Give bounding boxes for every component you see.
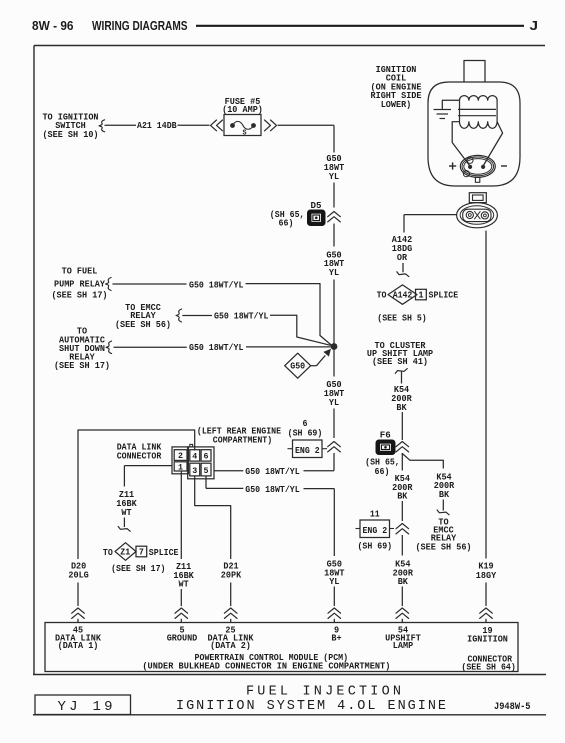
- svg-text:A142: A142: [393, 290, 413, 301]
- svg-text:(10 AMP): (10 AMP): [222, 104, 263, 115]
- svg-text:(SEE SH 56): (SEE SH 56): [115, 319, 171, 330]
- svg-text:2: 2: [178, 451, 183, 461]
- svg-text:TO: TO: [377, 290, 387, 301]
- svg-text:CONNECTOR: CONNECTOR: [117, 450, 162, 461]
- svg-text:8W - 96: 8W - 96: [32, 18, 74, 33]
- svg-text:6: 6: [204, 452, 209, 462]
- svg-text:(SEE SH 41): (SEE SH 41): [372, 356, 428, 367]
- svg-text:SPLICE: SPLICE: [149, 547, 179, 558]
- svg-text:J: J: [530, 18, 539, 33]
- svg-text:BK: BK: [396, 402, 406, 413]
- svg-text:BK: BK: [398, 576, 408, 587]
- svg-text:4: 4: [192, 452, 197, 462]
- svg-text:G50 18WT/YL: G50 18WT/YL: [214, 311, 269, 322]
- svg-text:1: 1: [178, 462, 183, 472]
- svg-text:ENG 2: ENG 2: [362, 525, 387, 536]
- svg-text:(SEE SH 5): (SEE SH 5): [377, 313, 427, 324]
- svg-text:(SEE SH 10): (SEE SH 10): [42, 129, 98, 140]
- svg-text:(SEE SH 17): (SEE SH 17): [54, 360, 110, 371]
- svg-text:20LG: 20LG: [68, 569, 89, 580]
- svg-text:GROUND: GROUND: [167, 632, 198, 643]
- svg-text:ENG 2: ENG 2: [295, 445, 320, 456]
- svg-text:5: 5: [204, 466, 209, 476]
- svg-text:(DATA 2): (DATA 2): [210, 640, 251, 651]
- svg-text:G50 18WT/YL: G50 18WT/YL: [245, 484, 300, 495]
- svg-text:66): 66): [279, 218, 294, 229]
- svg-text:(SEE SH 17): (SEE SH 17): [111, 563, 165, 574]
- svg-text:WT: WT: [179, 579, 189, 590]
- svg-text:11: 11: [370, 508, 380, 519]
- svg-text:TO: TO: [103, 547, 113, 558]
- svg-text:SPLICE: SPLICE: [429, 290, 459, 301]
- svg-text:IGNITION: IGNITION: [467, 634, 508, 645]
- svg-text:(SH 69): (SH 69): [357, 540, 392, 551]
- svg-text:J948W-5: J948W-5: [494, 702, 531, 713]
- svg-text:BK: BK: [439, 489, 449, 500]
- svg-text:(SEE SH 56): (SEE SH 56): [415, 542, 471, 553]
- svg-text:(SH 69): (SH 69): [288, 428, 323, 439]
- svg-text:1: 1: [419, 289, 424, 300]
- svg-text:YL: YL: [329, 397, 339, 408]
- svg-text:B+: B+: [331, 632, 341, 643]
- svg-text:(SEE SH 17): (SEE SH 17): [51, 289, 107, 300]
- svg-text:LAMP: LAMP: [393, 640, 414, 651]
- svg-text:WT: WT: [121, 507, 131, 518]
- svg-text:D5: D5: [311, 200, 322, 211]
- svg-text:G50 18WT/YL: G50 18WT/YL: [189, 342, 244, 353]
- svg-text:G50 18WT/YL: G50 18WT/YL: [189, 279, 244, 290]
- svg-text:IGNITION SYSTEM 4.OL ENGINE: IGNITION SYSTEM 4.OL ENGINE: [176, 699, 446, 714]
- svg-text:(SEE SH 64): (SEE SH 64): [461, 662, 515, 673]
- svg-text:(DATA 1): (DATA 1): [58, 640, 99, 651]
- svg-text:18GY: 18GY: [476, 570, 497, 581]
- svg-text:TO FUEL: TO FUEL: [62, 266, 98, 277]
- svg-text:YL: YL: [329, 171, 339, 182]
- svg-text:LOWER): LOWER): [381, 99, 412, 110]
- svg-text:PUMP RELAY: PUMP RELAY: [54, 278, 105, 289]
- svg-text:OR: OR: [397, 252, 407, 263]
- svg-text:7: 7: [139, 546, 144, 557]
- svg-text:WIRING DIAGRAMS: WIRING DIAGRAMS: [92, 18, 188, 33]
- svg-text:F6: F6: [380, 430, 391, 441]
- svg-text:20PK: 20PK: [221, 569, 242, 580]
- svg-text:G50: G50: [290, 361, 305, 372]
- svg-text:(UNDER BULKHEAD CONNECTOR IN E: (UNDER BULKHEAD CONNECTOR IN ENGINE COMP…: [142, 661, 390, 672]
- svg-text:BK: BK: [397, 490, 407, 501]
- svg-text:Z1: Z1: [120, 547, 130, 558]
- svg-text:A21 14DB: A21 14DB: [137, 120, 177, 131]
- svg-text:YL: YL: [329, 576, 339, 587]
- svg-text:COMPARTMENT): COMPARTMENT): [213, 435, 272, 446]
- svg-text:G50 18WT/YL: G50 18WT/YL: [245, 466, 300, 477]
- svg-text:S: S: [243, 130, 247, 138]
- svg-text:3: 3: [192, 466, 197, 476]
- svg-text:YL: YL: [329, 267, 339, 278]
- svg-text:66): 66): [375, 466, 390, 477]
